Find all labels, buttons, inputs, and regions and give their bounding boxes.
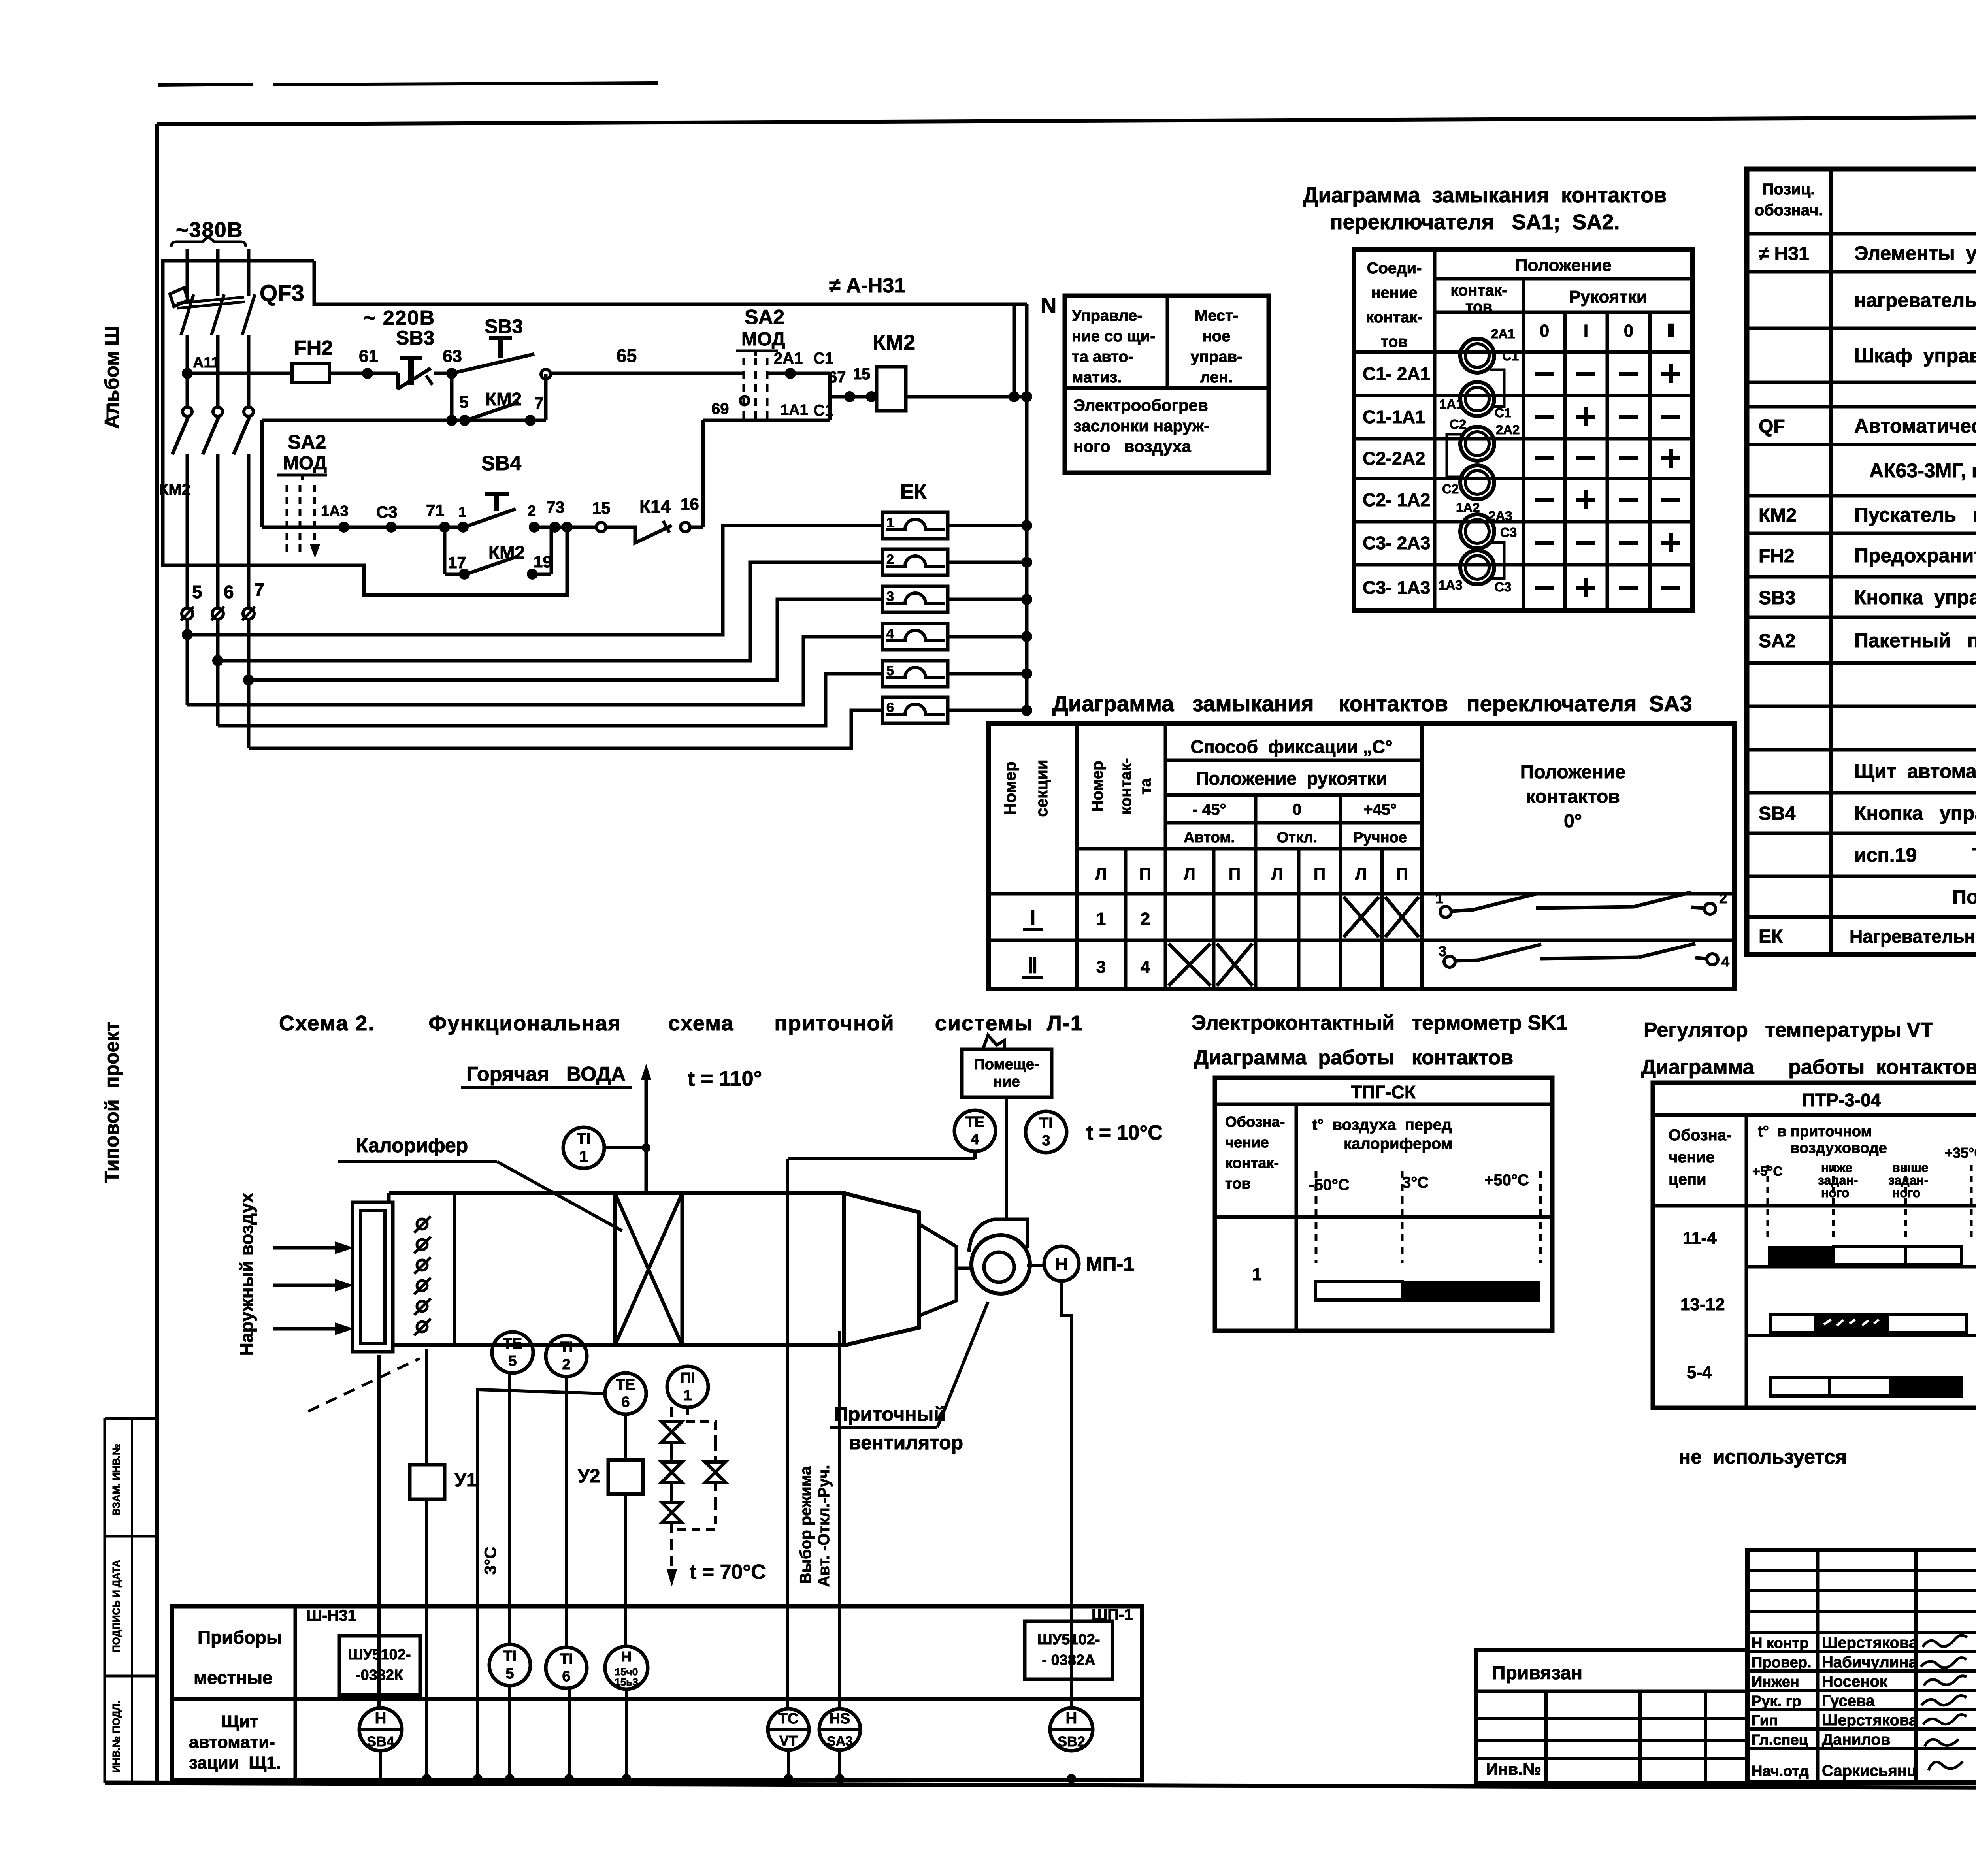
contact circles SA1 table xyxy=(1460,339,1494,373)
fan motor M xyxy=(1044,1246,1079,1281)
table SA3 grid xyxy=(988,724,1734,989)
svg-text:ЕК: ЕК xyxy=(900,480,927,503)
svg-text:~ 220В: ~ 220В xyxy=(364,307,435,330)
phase stub L3 xyxy=(247,249,251,296)
svg-text:задан-: задан- xyxy=(1888,1173,1928,1187)
svg-text:КМ2: КМ2 xyxy=(873,331,915,354)
intake damper box xyxy=(353,1202,393,1352)
svg-text:ПОДПИСЬ И ДАТА: ПОДПИСЬ И ДАТА xyxy=(110,1560,122,1652)
svg-text:2А1: 2А1 xyxy=(1491,326,1515,341)
svg-text:МОД: МОД xyxy=(283,453,327,474)
binding table Privyazan xyxy=(1476,1650,1748,1783)
svg-text:ного: ного xyxy=(1821,1186,1849,1200)
instrument TI6 xyxy=(546,1647,587,1688)
svg-text:Калорифер: Калорифер xyxy=(356,1134,468,1156)
svg-text:Элементы управления: Элементы управления xyxy=(1854,242,1976,264)
svg-text:-0382К: -0382К xyxy=(356,1667,403,1684)
svg-text:Ручное: Ручное xyxy=(1353,829,1407,846)
svg-text:1: 1 xyxy=(1435,890,1443,906)
svg-text:1А3: 1А3 xyxy=(1439,578,1463,592)
svg-text:Автоматический выключатель: Автоматический выключатель xyxy=(1854,415,1976,437)
svg-text:Позиц.: Позиц. xyxy=(1763,181,1815,198)
svg-text:15: 15 xyxy=(592,499,611,517)
svg-text:0: 0 xyxy=(1293,801,1301,818)
wire: riser 16 to SA2 lower line xyxy=(701,420,705,527)
svg-text:вентилятор: вентилятор xyxy=(849,1431,963,1454)
wire PI1 to valves xyxy=(686,1407,689,1418)
svg-text:нагревательным элементом: нагревательным элементом xyxy=(1854,289,1976,311)
svg-text:контактов: контактов xyxy=(1526,786,1620,807)
svg-text:Обозна-: Обозна- xyxy=(1225,1114,1285,1130)
parts list table grid xyxy=(1747,169,1976,955)
svg-text:Гусева: Гусева xyxy=(1822,1692,1875,1710)
svg-text:3°С: 3°С xyxy=(481,1547,500,1575)
wire room to fan xyxy=(1005,1097,1008,1219)
svg-text:Привязан: Привязан xyxy=(1492,1663,1582,1684)
svg-text:11-4: 11-4 xyxy=(1683,1228,1717,1248)
svg-text:У2: У2 xyxy=(578,1466,600,1487)
svg-text:С3- 1А3: С3- 1А3 xyxy=(1363,577,1430,598)
heating element EK1 xyxy=(882,512,948,539)
X marks row II (auto position) xyxy=(1169,944,1210,986)
svg-text:SB4: SB4 xyxy=(481,452,521,475)
svg-text:63: 63 xyxy=(443,347,462,366)
svg-text:Регулятор температуры VT: Регулятор температуры VT xyxy=(1644,1019,1933,1042)
svg-text:ние: ние xyxy=(993,1074,1020,1090)
svg-text:7: 7 xyxy=(534,394,543,412)
svg-text:3: 3 xyxy=(1439,943,1446,959)
wire TE4 to duct xyxy=(973,1151,977,1159)
svg-text:4: 4 xyxy=(1721,953,1729,970)
circuit-breaker QF3 xyxy=(170,288,188,307)
svg-text:П: П xyxy=(1396,865,1408,883)
heating element EK2 xyxy=(882,549,948,575)
svg-text:Н: Н xyxy=(621,1648,632,1665)
svg-text:1А3: 1А3 xyxy=(321,503,349,520)
svg-text:1: 1 xyxy=(683,1387,692,1404)
svg-text:Нагревательные элементы зас: Нагревательные элементы заслонки N=3,6 к… xyxy=(1850,926,1976,947)
svg-text:17: 17 xyxy=(448,553,466,572)
svg-text:13-12: 13-12 xyxy=(1680,1295,1725,1314)
actuator U1 xyxy=(425,1349,428,1465)
svg-text:2: 2 xyxy=(1141,909,1150,929)
svg-text:Диаграмма замыкания контакто: Диаграмма замыкания контактов xyxy=(1303,183,1667,207)
svg-text:SВ2: SВ2 xyxy=(1058,1733,1085,1750)
svg-text:Диаграмма работы контакт: Диаграмма работы контактов xyxy=(1641,1056,1976,1079)
svg-text:1: 1 xyxy=(1252,1265,1261,1284)
svg-text:Диаграмма замыкания конта: Диаграмма замыкания контактов переключат… xyxy=(1052,691,1692,716)
instruments location table xyxy=(172,1606,1142,1780)
svg-text:≠ А-Н31: ≠ А-Н31 xyxy=(829,274,905,297)
svg-text:SВ4: SВ4 xyxy=(367,1733,394,1750)
svg-text:TI: TI xyxy=(1039,1115,1053,1132)
svg-text:Мест-: Мест- xyxy=(1195,307,1238,324)
svg-text:С3: С3 xyxy=(1495,580,1511,594)
heating element EK4 xyxy=(882,623,948,650)
svg-text:Ⅱ: Ⅱ xyxy=(1667,321,1675,341)
svg-text:Обозна-: Обозна- xyxy=(1669,1126,1731,1144)
plus/minus marks SA1 table xyxy=(1535,372,1554,376)
svg-text:- 0382А: - 0382А xyxy=(1042,1652,1095,1669)
wire: pole L1 lower xyxy=(186,335,189,407)
svg-text:ШУ5102-: ШУ5102- xyxy=(1037,1631,1100,1648)
svg-text:контак-: контак- xyxy=(1225,1155,1279,1172)
svg-text:71: 71 xyxy=(426,501,445,520)
svg-text:автомати-: автомати- xyxy=(189,1733,275,1752)
svg-text:1: 1 xyxy=(579,1148,588,1165)
svg-text:I: I xyxy=(1584,321,1588,341)
table VT xyxy=(1653,1083,1976,1408)
instrument TE4 xyxy=(954,1110,996,1151)
contact state drawing row I xyxy=(1440,906,1451,917)
svg-text:С1: С1 xyxy=(813,350,833,367)
margin stamp strip bottom-left xyxy=(105,1417,157,1420)
svg-text:Номер: Номер xyxy=(1089,761,1106,812)
svg-text:+45°: +45° xyxy=(1363,801,1397,818)
svg-text:Пакетный переключатель ППМ: Пакетный переключатель ППМ3-10/н2 xyxy=(1854,629,1976,652)
svg-text:П: П xyxy=(1314,865,1326,883)
wire: phase bus to EK1 xyxy=(187,526,882,635)
svg-text:Электроконтактный термометр: Электроконтактный термометр SK1 xyxy=(1192,1011,1567,1034)
valve chain xyxy=(670,1407,673,1422)
svg-text:6: 6 xyxy=(562,1668,570,1685)
svg-text:t = 10°С: t = 10°С xyxy=(1086,1121,1163,1144)
svg-text:1: 1 xyxy=(1096,909,1106,929)
svg-text:Носенок: Носенок xyxy=(1822,1673,1888,1690)
wire: phase bus to EK6 xyxy=(249,710,882,748)
svg-text:Предохранитель ПРС-6-п: Предохранитель ПРС-6-п xyxy=(1854,544,1976,567)
svg-text:контак-: контак- xyxy=(1450,282,1507,299)
wire: line 1064 left segment xyxy=(262,419,546,422)
svg-text:TE: TE xyxy=(503,1335,522,1352)
svg-text:Положение рукоятки: Положение рукоятки xyxy=(1196,768,1388,789)
svg-text:Рук. гр: Рук. гр xyxy=(1752,1693,1801,1710)
instrument H/SB2 xyxy=(1050,1708,1093,1751)
air handling unit body xyxy=(389,1193,844,1345)
phase stub L1 xyxy=(186,249,189,296)
svg-text:69: 69 xyxy=(711,400,729,418)
svg-text:нение: нение xyxy=(1371,284,1417,301)
bottom junction wires xyxy=(422,1774,432,1784)
svg-text:2А2: 2А2 xyxy=(1496,422,1520,437)
svg-text:Гл.спец: Гл.спец xyxy=(1752,1732,1808,1748)
actuator U2 xyxy=(624,1414,627,1460)
cabinet box ShU5102-0382A xyxy=(1025,1621,1112,1679)
svg-text:5: 5 xyxy=(192,582,202,602)
instrument HS/SA3 xyxy=(819,1709,860,1750)
svg-text:2А3: 2А3 xyxy=(1488,509,1512,523)
svg-text:5-4: 5-4 xyxy=(1687,1363,1712,1382)
outlet water arrow t=70C xyxy=(670,1523,673,1577)
instrument TI2 xyxy=(546,1335,587,1377)
svg-text:I: I xyxy=(1030,906,1035,929)
svg-text:1А1: 1А1 xyxy=(781,402,808,418)
heater section X (kalorifer) xyxy=(613,1193,617,1345)
svg-text:QF: QF xyxy=(1759,416,1785,437)
svg-text:3°С: 3°С xyxy=(1402,1174,1429,1191)
svg-text:4: 4 xyxy=(971,1131,979,1148)
svg-text:С3: С3 xyxy=(1500,525,1517,540)
svg-text:та: та xyxy=(1137,778,1154,795)
wire: phase bus to EK4 xyxy=(187,637,882,705)
svg-text:Кнопка управления КСГЛ-12: Кнопка управления КСГЛ-12 xyxy=(1854,586,1976,608)
svg-text:ТПГ-СК: ТПГ-СК xyxy=(1351,1082,1416,1102)
svg-text:Альбом Ш: Альбом Ш xyxy=(101,326,123,429)
instrument TC/VT xyxy=(768,1709,809,1750)
outside air arrows xyxy=(273,1246,336,1250)
svg-text:С2- 1А2: С2- 1А2 xyxy=(1363,490,1430,510)
svg-text:Пускатель магнитный ПМЕ-1: Пускатель магнитный ПМЕ-112,т=8А xyxy=(1854,504,1976,526)
wire fan area to HS/SA3 xyxy=(838,1331,841,1708)
heating element EK6 xyxy=(882,697,948,723)
wire: node 63 drop xyxy=(450,373,454,420)
svg-text:67: 67 xyxy=(828,369,846,386)
svg-text:С2: С2 xyxy=(1450,417,1466,431)
svg-text:15: 15 xyxy=(853,365,871,383)
wire TE5 down xyxy=(508,1373,511,1644)
svg-text:К14: К14 xyxy=(639,496,671,517)
svg-text:Помеще-: Помеще- xyxy=(974,1056,1039,1073)
wire: rail drop to coil line xyxy=(1013,304,1016,397)
wire: pole L2 lower xyxy=(216,335,220,407)
svg-text:обознач.: обознач. xyxy=(1755,202,1823,219)
svg-text:МП-1: МП-1 xyxy=(1086,1253,1134,1275)
wire: main control line 220V xyxy=(187,372,292,375)
svg-text:TE: TE xyxy=(965,1114,985,1130)
svg-text:TE: TE xyxy=(616,1377,635,1393)
svg-text:исп.19 ТУ16 526 407-7: исп.19 ТУ16 526 407-76 xyxy=(1854,844,1976,866)
svg-text:Н: Н xyxy=(1066,1710,1077,1727)
damper open position dashed xyxy=(308,1358,420,1411)
svg-text:SB3: SB3 xyxy=(396,327,434,349)
svg-text:Н контр: Н контр xyxy=(1752,1635,1809,1652)
svg-text:15ь3: 15ь3 xyxy=(615,1676,638,1688)
wire: pole2 vertical below terminal xyxy=(216,619,220,726)
svg-text:контак-: контак- xyxy=(1366,309,1422,326)
svg-text:Инжен: Инжен xyxy=(1752,1674,1799,1690)
section divider xyxy=(453,1193,456,1345)
svg-text:Способ фиксации „С°: Способ фиксации „С° xyxy=(1190,736,1392,757)
svg-text:TI: TI xyxy=(560,1651,573,1667)
svg-text:VT: VT xyxy=(779,1733,798,1749)
damper blades chain xyxy=(417,1219,427,1229)
svg-text:С3- 2А3: С3- 2А3 xyxy=(1363,533,1430,553)
svg-text:TI: TI xyxy=(577,1130,591,1147)
svg-text:ного воздуха: ного воздуха xyxy=(1073,437,1191,456)
svg-text:Наружный воздух: Наружный воздух xyxy=(236,1192,257,1356)
svg-text:П: П xyxy=(1139,865,1151,883)
svg-text:Инв.№: Инв.№ xyxy=(1486,1760,1541,1778)
svg-text:Набичулина: Набичулина xyxy=(1822,1654,1918,1671)
svg-text:ное: ное xyxy=(1203,328,1231,345)
svg-text:По месту: По месту xyxy=(1952,886,1976,908)
phase stub L2 xyxy=(216,249,220,296)
instrument H 1540 xyxy=(605,1646,648,1689)
svg-text:ЕК: ЕК xyxy=(1759,926,1783,947)
svg-text:Гип: Гип xyxy=(1752,1712,1778,1729)
svg-text:3: 3 xyxy=(1096,957,1106,977)
table SA1/SA2 grid xyxy=(1354,249,1692,610)
terminal 15 xyxy=(596,522,606,532)
svg-text:ИНВ.№ ПОДЛ.: ИНВ.№ ПОДЛ. xyxy=(110,1701,122,1772)
svg-text:4: 4 xyxy=(886,626,894,641)
wire: SA2 lower contact line 69-1A1 xyxy=(703,419,830,422)
svg-text:КМ2: КМ2 xyxy=(1759,505,1797,526)
svg-text:FH2: FH2 xyxy=(294,337,333,360)
wire: rung2 (heater control) xyxy=(262,526,464,529)
damper drop wire to HSB4 xyxy=(377,1355,381,1708)
svg-text:Щит автоматизации Ш1: Щит автоматизации Ш1 xyxy=(1854,760,1976,782)
svg-text:3: 3 xyxy=(1042,1132,1050,1149)
wire: phase bus to EK5 xyxy=(218,674,882,726)
instrument H/SB4 xyxy=(359,1708,402,1751)
svg-text:зации Щ1.: зации Щ1. xyxy=(189,1753,281,1772)
signature rows xyxy=(1748,1631,1976,1634)
svg-text:+35°С: +35°С xyxy=(1944,1145,1976,1161)
svg-text:ниже: ниже xyxy=(1821,1160,1852,1175)
svg-text:Приточный: Приточный xyxy=(834,1403,946,1425)
svg-text:SB3: SB3 xyxy=(1759,588,1795,608)
svg-text:Выбор режима: Выбор режима xyxy=(797,1466,815,1584)
svg-text:Шерстякова: Шерстякова xyxy=(1822,1634,1918,1652)
svg-text:цепи: цепи xyxy=(1669,1171,1706,1188)
svg-text:С1- 2А1: С1- 2А1 xyxy=(1363,364,1430,384)
svg-text:Приборы: Приборы xyxy=(198,1627,282,1648)
svg-text:переключателя SA1; SA2.: переключателя SA1; SA2. xyxy=(1330,210,1620,234)
svg-text:SB4: SB4 xyxy=(1759,803,1796,824)
svg-text:QF3: QF3 xyxy=(260,281,304,306)
info box: control source xyxy=(1065,296,1269,473)
svg-text:Н: Н xyxy=(1055,1254,1068,1274)
svg-text:Н: Н xyxy=(375,1710,387,1727)
contactor coil KM2 xyxy=(877,367,906,411)
svg-text:HS: HS xyxy=(830,1710,850,1727)
svg-text:TI: TI xyxy=(503,1648,517,1665)
wire: top rail to N xyxy=(314,261,1027,304)
title block outer xyxy=(1748,1550,1976,1783)
svg-text:тов: тов xyxy=(1381,333,1408,350)
svg-text:управ-: управ- xyxy=(1191,348,1243,365)
svg-text:5: 5 xyxy=(886,663,894,678)
svg-text:У1: У1 xyxy=(454,1470,477,1491)
svg-text:t = 110°: t = 110° xyxy=(688,1067,762,1091)
svg-text:Кнопка управления КЕ-011: Кнопка управления КЕ-011У3 xyxy=(1854,802,1976,824)
heating element EK5 xyxy=(882,661,948,687)
svg-text:61: 61 xyxy=(359,347,378,366)
svg-text:Горячая ВОДА: Горячая ВОДА xyxy=(466,1063,626,1086)
X marks row I (manual position) xyxy=(1344,897,1379,937)
svg-text:Шерстякова: Шерстякова xyxy=(1822,1712,1918,1729)
svg-text:1А1: 1А1 xyxy=(1439,397,1463,411)
svg-text:16: 16 xyxy=(681,495,699,513)
svg-text:2: 2 xyxy=(886,552,894,567)
instrument PI1 xyxy=(667,1366,708,1407)
svg-text:Шкаф управления Ш-Н31: Шкаф управления Ш-Н31 xyxy=(1854,345,1976,367)
svg-text:1А2: 1А2 xyxy=(1456,500,1480,515)
svg-text:А11: А11 xyxy=(193,354,220,371)
svg-text:заслонки наруж-: заслонки наруж- xyxy=(1073,416,1209,435)
svg-text:Положение: Положение xyxy=(1515,256,1612,275)
svg-text:воздуховоде: воздуховоде xyxy=(1790,1140,1887,1156)
svg-text:6: 6 xyxy=(621,1394,630,1411)
svg-text:6: 6 xyxy=(224,582,234,602)
svg-text:С2: С2 xyxy=(1442,482,1459,496)
svg-text:Авт. -Откл.-Руч.: Авт. -Откл.-Руч. xyxy=(815,1465,833,1587)
svg-text:5: 5 xyxy=(508,1353,517,1369)
svg-text:С3: С3 xyxy=(376,503,398,521)
svg-text:0°: 0° xyxy=(1564,811,1582,832)
svg-text:4: 4 xyxy=(1141,957,1150,977)
fuse FH2 xyxy=(292,364,329,383)
svg-text:6: 6 xyxy=(886,700,894,715)
svg-text:t° воздуха перед: t° воздуха перед xyxy=(1312,1116,1452,1134)
svg-text:FH2: FH2 xyxy=(1759,546,1795,567)
terminal 16 xyxy=(681,522,690,532)
svg-text:чение: чение xyxy=(1669,1149,1714,1166)
wire: pole L3 lower xyxy=(247,335,251,407)
svg-text:Данилов: Данилов xyxy=(1822,1731,1890,1748)
svg-text:ШУ5102-: ШУ5102- xyxy=(348,1646,411,1663)
table SK1 xyxy=(1215,1078,1552,1331)
svg-text:Автом.: Автом. xyxy=(1184,829,1235,846)
svg-text:SA2: SA2 xyxy=(288,431,326,453)
svg-text:TI: TI xyxy=(560,1339,573,1356)
supply fan xyxy=(971,1235,1030,1294)
node 63 xyxy=(446,368,457,379)
svg-text:19: 19 xyxy=(534,552,552,571)
wire: phase bus to EK3 xyxy=(249,599,882,680)
unit outlet cone xyxy=(844,1193,919,1345)
svg-text:5: 5 xyxy=(459,393,468,411)
room box xyxy=(962,1049,1052,1097)
svg-text:2: 2 xyxy=(1719,890,1727,906)
wire TE6 left-down xyxy=(478,1390,605,1779)
svg-text:Нач.отд: Нач.отд xyxy=(1752,1763,1809,1780)
signature table empty rows xyxy=(1748,1569,1976,1572)
svg-text:7: 7 xyxy=(254,579,264,600)
svg-text:С1: С1 xyxy=(1495,405,1511,420)
svg-text:секции: секции xyxy=(1032,759,1051,817)
svg-text:Л: Л xyxy=(1355,865,1367,883)
svg-text:С1: С1 xyxy=(1502,348,1519,363)
fan suction line xyxy=(956,1267,973,1270)
svg-text:+50°С: +50°С xyxy=(1484,1172,1529,1189)
contact state drawing row II xyxy=(1444,956,1455,967)
svg-text:лен.: лен. xyxy=(1200,369,1233,386)
svg-text:ТС: ТС xyxy=(779,1710,799,1727)
holding contact KM2 17-19 loop xyxy=(443,527,447,574)
wire: 220V tap from top bus down-left loop xyxy=(163,261,567,595)
svg-text:КМ2: КМ2 xyxy=(488,542,525,563)
svg-text:ние со щи-: ние со щи- xyxy=(1072,328,1156,345)
svg-text:ВЗАМ. ИНВ.№: ВЗАМ. ИНВ.№ xyxy=(110,1444,122,1516)
sheet frame borders xyxy=(158,84,253,85)
svg-text:тов: тов xyxy=(1225,1175,1251,1192)
svg-text:Управле-: Управле- xyxy=(1072,307,1143,324)
svg-text:SA3: SA3 xyxy=(827,1734,853,1749)
svg-text:Л: Л xyxy=(1095,865,1107,883)
instrument TE6 xyxy=(605,1373,646,1414)
svg-text:П: П xyxy=(1229,865,1241,883)
svg-text:МОД: МОД xyxy=(741,329,785,350)
svg-text:3: 3 xyxy=(886,589,894,604)
svg-text:Рукоятки: Рукоятки xyxy=(1569,287,1647,307)
neutral bus N xyxy=(1025,304,1029,710)
svg-text:матиз.: матиз. xyxy=(1072,369,1122,386)
svg-text:С1-1А1: С1-1А1 xyxy=(1363,407,1425,427)
wire: phase bus to EK2 xyxy=(218,562,882,661)
svg-text:Схема 2. Функциональная: Схема 2. Функциональная схема приточной … xyxy=(279,1011,1083,1035)
